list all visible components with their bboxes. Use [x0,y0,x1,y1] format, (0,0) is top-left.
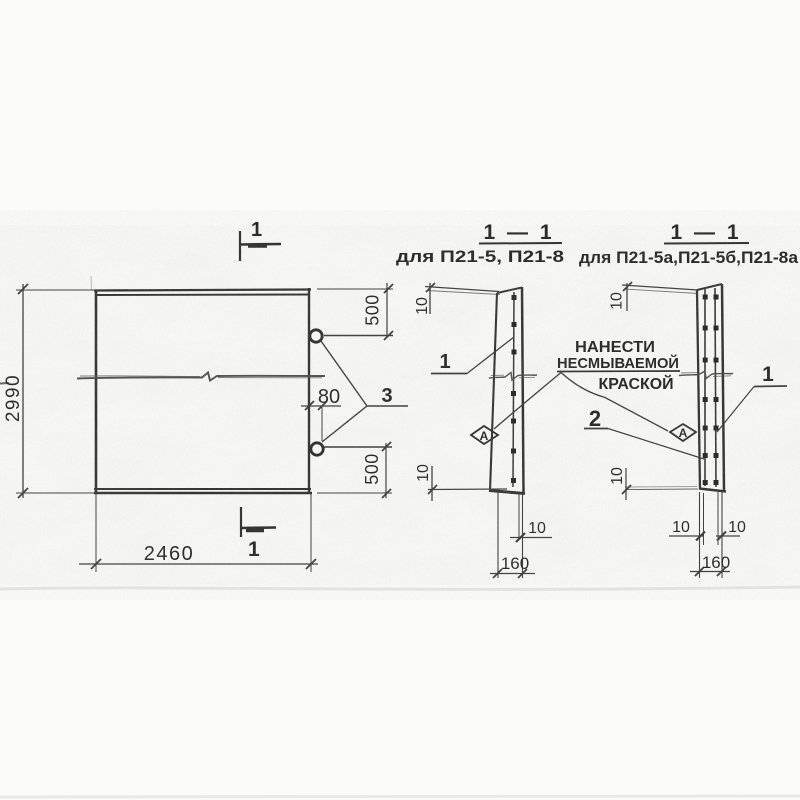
dimension 2990 (left) [16,284,94,498]
lifting loop top (pos.3) [310,330,322,342]
stamp diamond A (middle) [471,426,498,444]
right section outline [697,284,726,492]
rebar cross marks [703,295,719,486]
paper grain overlay [0,210,800,600]
section marker bottom, cut line 1 [241,507,276,537]
middle section break line [489,373,537,381]
lifting loop bottom (pos.3) [311,443,323,455]
right dim 10 bottom-right [716,532,740,541]
note leader to right diamond [561,373,668,432]
dimension 2460 (bottom) [79,494,318,572]
middle dim 160 [490,489,535,578]
right bottom extension lines [622,468,722,578]
dimension 500 top right [317,283,393,340]
right dim 10 bottom-left [669,532,705,541]
leader pos.3 [321,341,408,442]
rebar cross marks [511,295,517,483]
panel break line (plan) [77,373,325,381]
right dim 10 top [622,282,698,311]
middle section outline [489,287,525,494]
right section rebar line pos.1 [715,288,716,487]
panel outline (plan view) [94,288,312,493]
middle section rebar line pos.1 [513,292,514,487]
stamp diamond A (right) [670,424,696,441]
right section rebar line pos.2 [704,289,706,486]
section marker top, cut line 1 [240,231,281,261]
note leader to middle diamond [494,373,561,430]
dimension 500 bottom right [317,442,392,498]
dimension 80 [301,401,341,441]
middle dim 10 bottom-right [510,494,552,578]
right dim 160 [690,567,730,576]
middle dim 10 top [425,283,500,314]
scan background smudge [0,276,800,797]
middle dim 10 bottom-left [428,466,507,501]
right section break line [679,371,733,379]
